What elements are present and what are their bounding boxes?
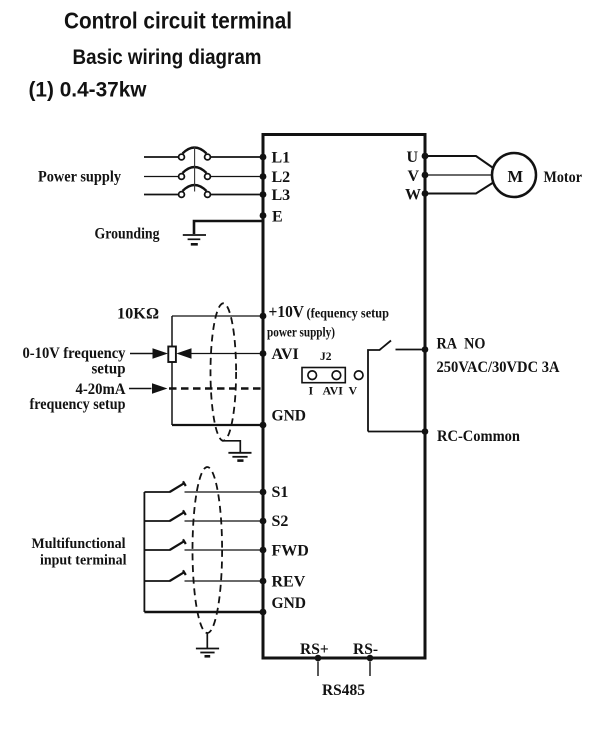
label Motor bbox=[544, 169, 583, 186]
svg-text:input terminal: input terminal bbox=[40, 553, 127, 569]
wire to RC terminal bbox=[368, 431, 425, 433]
digital input bus bbox=[143, 492, 145, 612]
jumper pin AVI bbox=[332, 371, 341, 380]
terminal S2 bbox=[260, 513, 289, 530]
svg-text:I: I bbox=[309, 384, 314, 398]
jumper pin labels I AVI V bbox=[309, 384, 358, 398]
svg-text:GND: GND bbox=[272, 595, 307, 612]
terminal L3 bbox=[260, 187, 291, 204]
switch K1 contact circles bbox=[179, 154, 211, 160]
grounding wire from E bbox=[194, 221, 262, 234]
svg-text:Multifunctional: Multifunctional bbox=[32, 536, 126, 552]
label 10KOhm bbox=[117, 306, 159, 323]
wire to REV bbox=[185, 580, 264, 582]
switch K3 blade arc bbox=[183, 185, 207, 191]
wire L2 right bbox=[210, 176, 263, 178]
svg-text:AVI: AVI bbox=[323, 384, 344, 398]
svg-text:Basic wiring diagram: Basic wiring diagram bbox=[73, 46, 262, 69]
terminal AVI bbox=[260, 346, 299, 363]
arrow into pot left bbox=[153, 348, 169, 358]
switch FWD blade bbox=[170, 539, 186, 550]
svg-text:+10V: +10V bbox=[269, 302, 305, 321]
wire to S2 bbox=[185, 520, 264, 522]
label Grounding bbox=[95, 226, 160, 243]
inverter main box U1 bbox=[263, 135, 425, 659]
wire L3 left bbox=[144, 194, 179, 196]
label RC-Common bbox=[437, 428, 520, 445]
switch S1 stub bbox=[144, 491, 170, 493]
wire to FWD bbox=[185, 549, 264, 551]
wire U to motor bbox=[425, 156, 493, 168]
wire L3 right bbox=[210, 194, 263, 196]
label (1) 0.4-37kw bbox=[29, 79, 148, 102]
svg-text:E: E bbox=[272, 209, 283, 226]
wire pot bottom to GND bbox=[172, 424, 263, 426]
label RA NO bbox=[437, 336, 486, 353]
dashed 4-20mA wire bbox=[169, 387, 262, 390]
svg-text:setup: setup bbox=[92, 361, 126, 378]
ground symbol shield 1 bbox=[228, 453, 251, 461]
svg-text:V: V bbox=[349, 384, 358, 398]
switch REV blade bbox=[170, 570, 186, 581]
switch S2 blade bbox=[170, 510, 186, 521]
terminal RA bbox=[422, 346, 429, 353]
svg-text:Control circuit terminal: Control circuit terminal bbox=[64, 8, 292, 34]
potentiometer RP1 body bbox=[168, 347, 176, 363]
RS- stub bbox=[369, 662, 371, 677]
switch K2 contact circles bbox=[179, 174, 211, 180]
svg-text:(1) 0.4-37kw: (1) 0.4-37kw bbox=[29, 79, 148, 102]
switch K1 blade arc bbox=[183, 148, 207, 154]
terminal REV bbox=[260, 574, 306, 591]
svg-text:RS+: RS+ bbox=[300, 641, 329, 658]
label 0-10V frequency setup bbox=[23, 345, 126, 378]
terminal E bbox=[260, 209, 283, 226]
label 250VAC/30VDC 3A bbox=[437, 359, 561, 376]
terminal RS+ bbox=[300, 641, 329, 661]
svg-text:10KΩ: 10KΩ bbox=[117, 306, 159, 323]
wire L1 left bbox=[144, 156, 179, 158]
motor M1 circle bbox=[492, 153, 536, 197]
switch FWD stub bbox=[144, 549, 170, 551]
svg-text:REV: REV bbox=[272, 574, 306, 591]
wire 4-20mA input bbox=[129, 388, 152, 390]
title: Control circuit terminal bbox=[64, 8, 292, 34]
terminal V bbox=[408, 168, 429, 185]
wire 0-10V input bbox=[130, 353, 153, 355]
svg-text:Motor: Motor bbox=[544, 169, 583, 186]
shield drain wire bbox=[222, 441, 240, 452]
terminal L1 bbox=[260, 150, 291, 167]
wire L1 right bbox=[210, 156, 263, 158]
potentiometer upper wire bbox=[171, 316, 173, 347]
svg-text:RS-: RS- bbox=[353, 641, 378, 658]
label Multifunctional input terminal bbox=[32, 536, 127, 569]
ground symbol (mains earth) bbox=[183, 235, 206, 244]
svg-text:power supply): power supply) bbox=[267, 325, 335, 340]
shield ellipse digital cable bbox=[193, 467, 223, 633]
wire bus to GND2 bbox=[144, 611, 263, 613]
terminal FWD bbox=[260, 543, 309, 560]
switch gang linkage bbox=[194, 147, 196, 192]
svg-text:L3: L3 bbox=[272, 187, 291, 204]
switch K2 blade arc bbox=[183, 167, 207, 173]
terminal L2 bbox=[260, 169, 291, 186]
wire AVI to pot bbox=[189, 353, 263, 355]
terminal U bbox=[407, 149, 429, 166]
wire V to motor bbox=[425, 174, 493, 176]
switch K3 contact circles bbox=[179, 192, 211, 198]
potentiometer lower wire bbox=[171, 362, 173, 425]
jumper pin I bbox=[308, 371, 317, 380]
svg-text:RA NO: RA NO bbox=[437, 336, 486, 353]
ground symbol shield 2 bbox=[196, 649, 219, 657]
arrow 4-20mA bbox=[152, 383, 168, 393]
svg-text:U: U bbox=[407, 149, 419, 166]
svg-text:L1: L1 bbox=[272, 150, 291, 167]
svg-text:frequency setup: frequency setup bbox=[30, 396, 126, 413]
svg-text:M: M bbox=[508, 167, 524, 186]
svg-text:V: V bbox=[408, 168, 420, 185]
terminal GND digital bbox=[260, 595, 306, 615]
wire W to motor bbox=[425, 183, 493, 194]
wire +10V feed bbox=[172, 315, 263, 317]
terminal W bbox=[405, 187, 428, 204]
relay contact RA vertical bbox=[368, 350, 380, 432]
terminal RC bbox=[422, 428, 429, 435]
label 4-20mA frequency setup bbox=[30, 381, 127, 413]
svg-text:GND: GND bbox=[272, 408, 307, 425]
switch S1 blade bbox=[170, 481, 186, 492]
svg-text:0-10V frequency: 0-10V frequency bbox=[23, 345, 126, 362]
terminal RS- bbox=[353, 641, 378, 661]
switch S2 stub bbox=[144, 520, 170, 522]
relay blade bbox=[380, 341, 392, 351]
svg-text:RC-Common: RC-Common bbox=[437, 428, 520, 445]
svg-text:S2: S2 bbox=[272, 513, 289, 530]
RS+ stub bbox=[317, 662, 319, 677]
jumper J2 block bbox=[302, 368, 345, 383]
arrow into pot right bbox=[176, 348, 191, 358]
label RS485 bbox=[322, 682, 365, 699]
shield drain wire 2 bbox=[206, 633, 208, 648]
svg-text:RS485: RS485 bbox=[322, 682, 365, 699]
terminal +10V bbox=[260, 302, 389, 340]
svg-text:J2: J2 bbox=[320, 351, 332, 363]
switch REV stub bbox=[144, 580, 170, 582]
jumper J2 label bbox=[320, 351, 332, 363]
svg-text:S1: S1 bbox=[272, 484, 289, 501]
jumper pin V bbox=[354, 371, 363, 380]
wire L2 left bbox=[144, 176, 179, 178]
svg-text:Power supply: Power supply bbox=[38, 169, 121, 186]
svg-text:L2: L2 bbox=[272, 169, 291, 186]
label Power supply bbox=[38, 169, 121, 186]
terminal S1 bbox=[260, 484, 289, 501]
subtitle: Basic wiring diagram bbox=[73, 46, 262, 69]
wire to S1 bbox=[185, 491, 264, 493]
svg-text:Grounding: Grounding bbox=[95, 226, 160, 243]
wire to RA terminal bbox=[396, 349, 426, 351]
svg-text:250VAC/30VDC 3A: 250VAC/30VDC 3A bbox=[437, 359, 561, 376]
svg-text:W: W bbox=[405, 187, 421, 204]
svg-text:(fequency setup: (fequency setup bbox=[307, 306, 390, 321]
terminal GND analog bbox=[260, 408, 306, 429]
svg-text:AVI: AVI bbox=[272, 346, 299, 363]
shield ellipse analog cable bbox=[211, 303, 237, 440]
svg-text:FWD: FWD bbox=[272, 543, 309, 560]
